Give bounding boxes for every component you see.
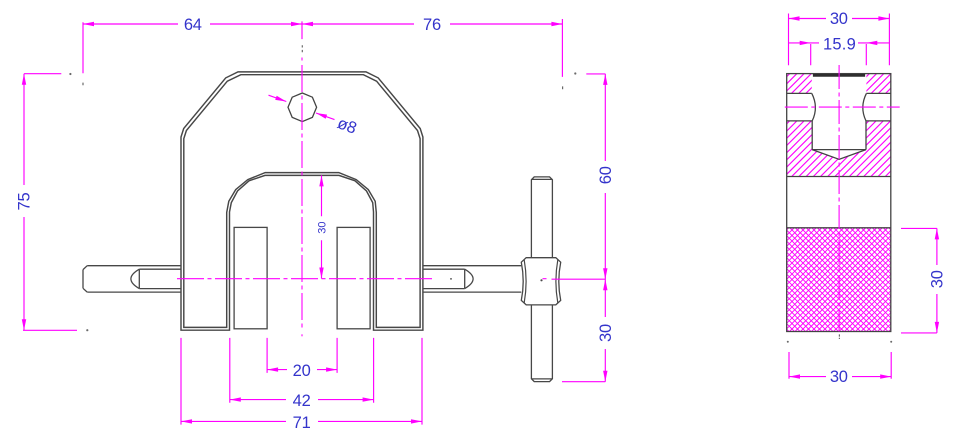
svg-text:30: 30 — [317, 221, 329, 233]
svg-text:20: 20 — [293, 362, 311, 380]
svg-text:15.9: 15.9 — [823, 35, 856, 53]
svg-text:30: 30 — [597, 324, 615, 342]
svg-text:60: 60 — [597, 166, 615, 184]
svg-text:71: 71 — [293, 414, 311, 432]
svg-text:30: 30 — [928, 270, 946, 288]
svg-text:76: 76 — [423, 16, 441, 34]
svg-text:75: 75 — [16, 193, 34, 211]
svg-text:30: 30 — [830, 10, 848, 28]
svg-text:30: 30 — [830, 368, 848, 386]
svg-text:64: 64 — [184, 16, 202, 34]
svg-text:42: 42 — [293, 392, 311, 410]
